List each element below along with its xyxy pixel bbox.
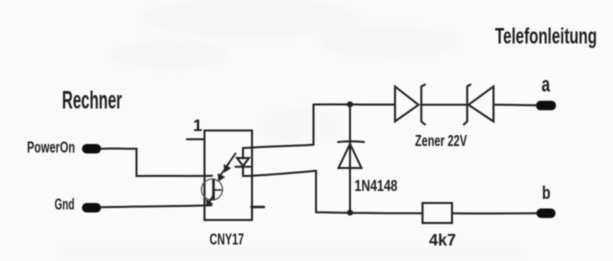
terminal b xyxy=(537,209,556,219)
wire zener to terminal a xyxy=(494,104,537,106)
wire LED top to node xyxy=(243,145,314,148)
wire up to top rail xyxy=(313,105,315,145)
light arrows xyxy=(218,154,235,181)
diode D1 1N4148 xyxy=(338,104,364,212)
svg-text:CNY17: CNY17 xyxy=(210,232,245,249)
junction dot top xyxy=(347,101,353,107)
wire LED bottom to down node xyxy=(243,171,316,176)
LED inside CNY17 xyxy=(236,148,251,176)
svg-text:Gnd: Gnd xyxy=(55,197,75,214)
terminal a xyxy=(536,101,556,111)
resistor R1 4k7 xyxy=(423,203,453,223)
svg-text:Telefonleitung: Telefonleitung xyxy=(495,24,597,49)
wire resistor to terminal b xyxy=(452,212,537,214)
svg-text:a: a xyxy=(542,74,551,97)
svg-text:1N4148: 1N4148 xyxy=(355,178,398,195)
svg-text:PowerOn: PowerOn xyxy=(27,140,75,157)
wire Gnd to emitter xyxy=(101,205,212,207)
wire down to bottom rail xyxy=(315,171,317,212)
zener diode Z1 xyxy=(395,85,425,125)
wire top rail to zener xyxy=(314,103,396,105)
terminal Gnd xyxy=(82,203,101,213)
terminal PowerOn xyxy=(82,144,101,154)
svg-text:Rechner: Rechner xyxy=(62,87,122,115)
wire bottom rail to resistor xyxy=(316,212,423,213)
svg-text:Zener 22V: Zener 22V xyxy=(415,133,467,150)
svg-text:4k7: 4k7 xyxy=(429,231,456,250)
stub pin 4 xyxy=(252,206,265,208)
pin 1 stub xyxy=(187,138,205,140)
svg-text:b: b xyxy=(542,183,551,203)
wire PowerOn to optocoupler xyxy=(101,149,212,176)
phototransistor inside CNY17 xyxy=(202,179,223,206)
wire between zeners xyxy=(421,104,467,106)
zener diode Z2 xyxy=(464,85,494,125)
svg-text:1: 1 xyxy=(193,117,202,135)
optocoupler U1 CNY17 body xyxy=(205,131,253,221)
junction dot bottom xyxy=(347,210,353,216)
